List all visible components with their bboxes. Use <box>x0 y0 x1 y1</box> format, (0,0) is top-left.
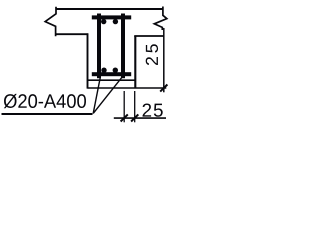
drop block left edge <box>87 33 89 88</box>
dim tick at x134.7 <box>131 114 138 121</box>
break line right <box>154 7 167 31</box>
label Ø20-A400 <box>4 94 86 108</box>
bar section dot top left <box>101 19 106 24</box>
label underline <box>2 113 93 115</box>
rebar horizontal bar bottom <box>92 72 131 76</box>
slab top edge <box>56 8 164 10</box>
leader line to left bar <box>93 78 100 114</box>
dimension line horizontal 25 <box>114 117 166 119</box>
slab bottom edge right (extension of dim) <box>134 35 164 37</box>
break line left <box>45 7 56 37</box>
dim text 25 vertical <box>146 44 158 65</box>
leader line to right bar <box>93 77 122 114</box>
drop block inner line <box>88 79 136 81</box>
extension line at x124 <box>123 91 125 122</box>
dim text 25 horizontal <box>143 103 163 116</box>
drop block bottom edge <box>88 87 167 89</box>
extension line at x134.7 <box>134 91 136 122</box>
dim tick at x124 <box>121 114 128 121</box>
rebar vertical bar left <box>97 14 101 79</box>
bar section dot bottom left <box>101 68 106 73</box>
rebar vertical bar right <box>121 14 125 79</box>
rebar horizontal bar top <box>92 15 131 19</box>
dimension line vertical 25 <box>163 28 165 92</box>
dim tick bottom right <box>160 85 167 92</box>
drop block right edge <box>134 36 136 88</box>
slab bottom edge left <box>56 33 89 35</box>
bar section dot bottom right <box>113 68 118 73</box>
bar section dot top right <box>113 19 118 24</box>
